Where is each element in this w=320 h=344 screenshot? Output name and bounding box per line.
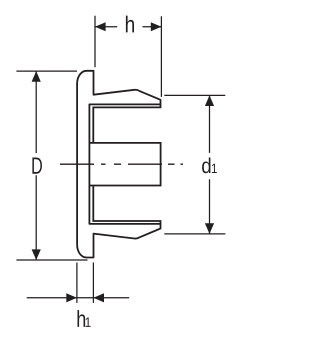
dim h line	[95, 26, 161, 28]
arrow h right	[151, 22, 162, 31]
dim D extension lines	[16, 71, 87, 260]
label d1	[202, 157, 217, 173]
dim d1 line	[209, 95, 211, 234]
arrow d1 top	[205, 95, 214, 106]
label h	[126, 16, 134, 33]
arrow h left	[95, 22, 106, 31]
arrow D top	[32, 71, 41, 82]
centerline	[60, 163, 183, 165]
arrow D bottom	[32, 249, 41, 260]
dim h1 extension lines	[77, 263, 94, 303]
hub bore rectangle	[89, 143, 160, 186]
arrow h1 left (outside, pointing right)	[66, 293, 77, 302]
arrow d1 bottom	[205, 223, 214, 234]
label h1	[77, 310, 90, 327]
arrow h1 right (outside, pointing left)	[93, 293, 104, 302]
dim h1 line	[27, 297, 130, 299]
cap outer section outline	[77, 71, 160, 258]
dim d1 extension lines	[164, 95, 225, 234]
dim h extension lines	[95, 16, 161, 97]
inner sleeve bottom wall	[93, 186, 160, 224]
dim D line	[35, 71, 37, 260]
inner sleeve top wall	[93, 104, 160, 142]
label D	[32, 157, 42, 173]
